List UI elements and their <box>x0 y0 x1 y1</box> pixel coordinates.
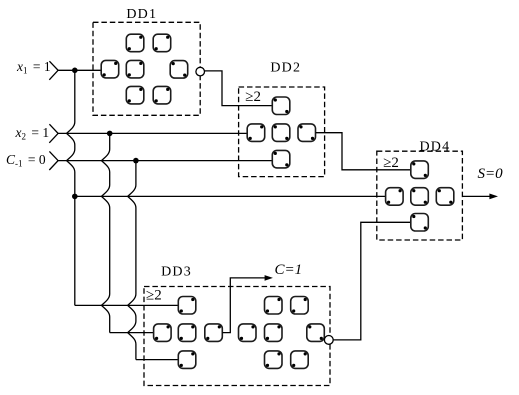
wire to DD3 top input <box>75 304 179 306</box>
cell DD3 inv bottom-b <box>291 351 309 369</box>
cell DD1 f (bottom-left) <box>126 86 144 104</box>
cell DD3 maj bottom <box>178 351 196 369</box>
input chevron x2 <box>49 124 58 143</box>
wire DD3 out to DD4 <box>333 222 411 340</box>
cell DD3 maj top <box>178 297 196 315</box>
block DD2 dashed box <box>239 87 325 177</box>
cell DD2 mid-left <box>247 124 265 141</box>
wire DD1 out <box>205 71 273 106</box>
block DD3 dashed box <box>144 287 330 386</box>
cell DD4 mid-right <box>436 188 454 206</box>
svg-text:C-1 = 0: C-1 = 0 <box>6 152 46 169</box>
wire x2 vertical with hops <box>102 133 110 332</box>
node C-1 branch <box>133 158 139 164</box>
cell DD3 inv mid input <box>239 324 257 342</box>
cell DD1 d (mid) <box>126 60 144 78</box>
cell DD3 inv mid <box>265 324 283 342</box>
cell DD1 a (top-left) <box>126 34 144 52</box>
cell DD3 inv bottom-a <box>265 351 283 369</box>
input chevron C-1 <box>49 151 58 170</box>
wire DD3 maj out to C arrow <box>223 278 267 333</box>
wire DD2 out to DD4 <box>316 133 411 170</box>
wire x1 to DD1 <box>58 69 101 71</box>
input chevron x1 <box>49 61 58 80</box>
wire C-1 to DD2 <box>58 160 272 162</box>
cell DD2 mid-right <box>298 124 316 141</box>
node S-line branch <box>72 194 78 200</box>
wire S-line (x1 branch to DD4) <box>75 195 386 197</box>
svg-text:≥2: ≥2 <box>245 89 261 105</box>
wire x1 vertical with hops <box>67 70 75 305</box>
cell DD3 maj mid-left <box>154 324 172 342</box>
inverter bubble DD3 <box>324 336 333 345</box>
svg-text:DD1: DD1 <box>126 7 157 22</box>
cell DD2 bottom <box>272 150 290 168</box>
arrowhead S <box>489 194 498 200</box>
cell DD4 top <box>411 161 429 179</box>
svg-text:≥2: ≥2 <box>383 155 399 171</box>
cell DD1 c (mid input) <box>101 60 119 78</box>
svg-text:x1 = 1: x1 = 1 <box>16 59 51 76</box>
wire to DD3 mid input <box>110 332 154 334</box>
cell DD2 top <box>272 97 290 115</box>
wire S output <box>462 195 491 197</box>
wire x2 to DD2 <box>58 132 247 134</box>
cell DD3 maj mid-center <box>178 324 196 342</box>
svg-text:DD2: DD2 <box>270 61 301 76</box>
cell DD3 inv top-a <box>265 297 283 315</box>
svg-text:≥2: ≥2 <box>146 288 162 304</box>
wire to DD3 bottom input <box>136 359 179 361</box>
svg-text:DD4: DD4 <box>419 139 450 154</box>
inverter bubble DD1 <box>196 67 205 76</box>
svg-text:DD3: DD3 <box>161 265 192 280</box>
arrowhead C <box>265 275 273 281</box>
cell DD2 mid-center <box>272 124 290 141</box>
cell DD4 mid-left <box>386 188 404 206</box>
cell DD3 maj mid-right <box>205 324 223 342</box>
node x1 branch <box>72 68 78 74</box>
cell DD1 e (mid output) <box>170 61 188 79</box>
cell DD1 g (bottom-right) <box>153 86 171 104</box>
wire C-1 vertical with hops <box>128 161 136 360</box>
cell DD4 bottom <box>411 214 429 232</box>
svg-text:x2 = 1: x2 = 1 <box>15 125 50 142</box>
cell DD4 mid-center <box>411 188 429 206</box>
cell DD3 inv output <box>307 324 325 342</box>
svg-text:S=0: S=0 <box>478 166 504 182</box>
svg-text:C=1: C=1 <box>275 262 303 278</box>
block DD1 dashed box <box>93 22 200 115</box>
cell DD3 inv top-b <box>291 297 309 315</box>
block DD4 dashed box <box>377 151 463 240</box>
cell DD1 b (top-right) <box>153 34 171 52</box>
node x2 branch <box>107 131 113 137</box>
